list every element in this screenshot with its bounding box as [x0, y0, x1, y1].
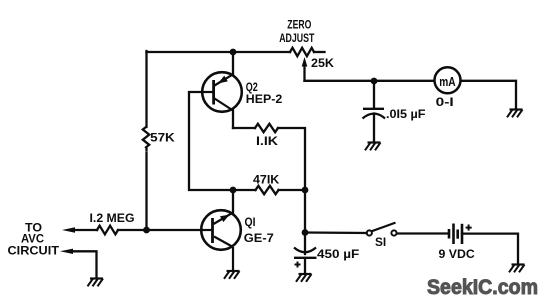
wire Q1 collector vertical — [232, 190, 234, 213]
junction dot 471K left — [230, 187, 237, 194]
svg-text:mA: mA — [439, 75, 455, 89]
ground meter — [507, 110, 523, 118]
capacitor C1 .015uF plates — [363, 109, 386, 119]
svg-text:I.2 MEG: I.2 MEG — [90, 213, 135, 225]
wire top rail from left corner to potentiometer — [147, 51, 291, 53]
svg-text:HEP-2: HEP-2 — [246, 94, 282, 106]
junction dot top rail / Q2 collector — [230, 49, 237, 56]
ground battery — [509, 265, 525, 273]
svg-text:SI: SI — [375, 237, 386, 249]
wire left rail dashed break below 57K — [145, 149, 147, 151]
svg-text:450 µF: 450 µF — [317, 249, 359, 261]
svg-text:GE-7: GE-7 — [244, 233, 274, 245]
svg-text:I.IK: I.IK — [256, 136, 279, 148]
wire Q2 collector vertical — [232, 52, 234, 75]
svg-text:QI: QI — [245, 217, 256, 229]
wire node to switch — [305, 231, 367, 234]
wire left rail lower segment — [145, 158, 147, 231]
svg-text:57K: 57K — [150, 133, 175, 145]
wire potentiometer wiper vertical — [303, 63, 305, 81]
svg-text:SeekIC.com: SeekIC.com — [427, 276, 538, 299]
svg-text:9 VDC: 9 VDC — [439, 249, 475, 261]
svg-text:.0I5 µF: .0I5 µF — [386, 109, 426, 121]
junction dot bottom node — [302, 229, 309, 236]
junction dot 471K right — [302, 187, 309, 194]
junction dot meter wire / C1 — [371, 78, 378, 85]
svg-text:AVC: AVC — [21, 234, 44, 246]
resistor R1 57K zigzag — [143, 127, 149, 147]
wire 1.1K right to node column — [278, 128, 305, 190]
wire capacitor C2 bottom lead — [304, 258, 306, 273]
svg-text:47IK: 47IK — [253, 175, 280, 187]
ground Q1 emitter — [224, 271, 240, 279]
svg-text:25K: 25K — [311, 58, 335, 70]
resistor R5 1.2 MEG zigzag — [97, 226, 118, 235]
wire capacitor C1 bottom lead — [373, 114, 375, 142]
wire capacitor C1 top lead — [373, 81, 375, 108]
wire potentiometer right stub — [314, 51, 325, 53]
svg-text:ADJUST: ADJUST — [279, 33, 314, 45]
wire 471K right stub — [279, 189, 306, 191]
svg-text:ZERO: ZERO — [287, 20, 311, 32]
wire battery to right corner and down — [462, 234, 518, 264]
transistor Q1 GE-7 — [201, 210, 241, 270]
resistor R4 471K zigzag — [256, 186, 279, 194]
ground .015uF — [365, 143, 381, 151]
capacitor C2 450uF plates — [294, 248, 317, 268]
wire left rail upper segment — [145, 51, 147, 127]
arrowhead to AVC (lower) — [60, 249, 73, 254]
wire meter to right corner and down — [460, 81, 516, 109]
wire node column down — [304, 190, 306, 233]
svg-text:Q2: Q2 — [246, 82, 258, 94]
wire wiper to meter — [305, 80, 435, 82]
arrowhead potentiometer wiper — [302, 57, 308, 67]
wire Q2 base left and down to 471K rail — [189, 92, 233, 190]
svg-text:0-I: 0-I — [436, 97, 454, 109]
battery B1 9VDC — [449, 224, 472, 245]
svg-text:CIRCUIT: CIRCUIT — [8, 246, 60, 258]
potentiometer R2 25K zigzag — [290, 48, 314, 56]
wire switch to battery — [397, 232, 449, 234]
svg-text:TO: TO — [25, 222, 42, 234]
ground AVC circuit — [88, 279, 104, 287]
wire Q2 emitter to 1.1K resistor — [232, 111, 234, 129]
wire 1.2MEG to Q1 base — [118, 229, 201, 231]
wire 471K left stub — [233, 189, 256, 191]
wire arrow2 line to ground — [72, 251, 97, 278]
switch S1 — [367, 223, 397, 236]
arrowhead to AVC (upper) — [62, 227, 75, 233]
junction dot left rail / Q1 base — [143, 227, 150, 234]
wire capacitor C2 450uF top lead — [304, 233, 306, 255]
resistor R3 1.1K zigzag — [255, 124, 278, 132]
meter M1 mA — [435, 67, 461, 93]
transistor Q2 HEP-2 — [202, 72, 242, 112]
wire 1.2MEG line with Q1 base — [74, 229, 97, 231]
ground 450uF — [296, 274, 312, 282]
